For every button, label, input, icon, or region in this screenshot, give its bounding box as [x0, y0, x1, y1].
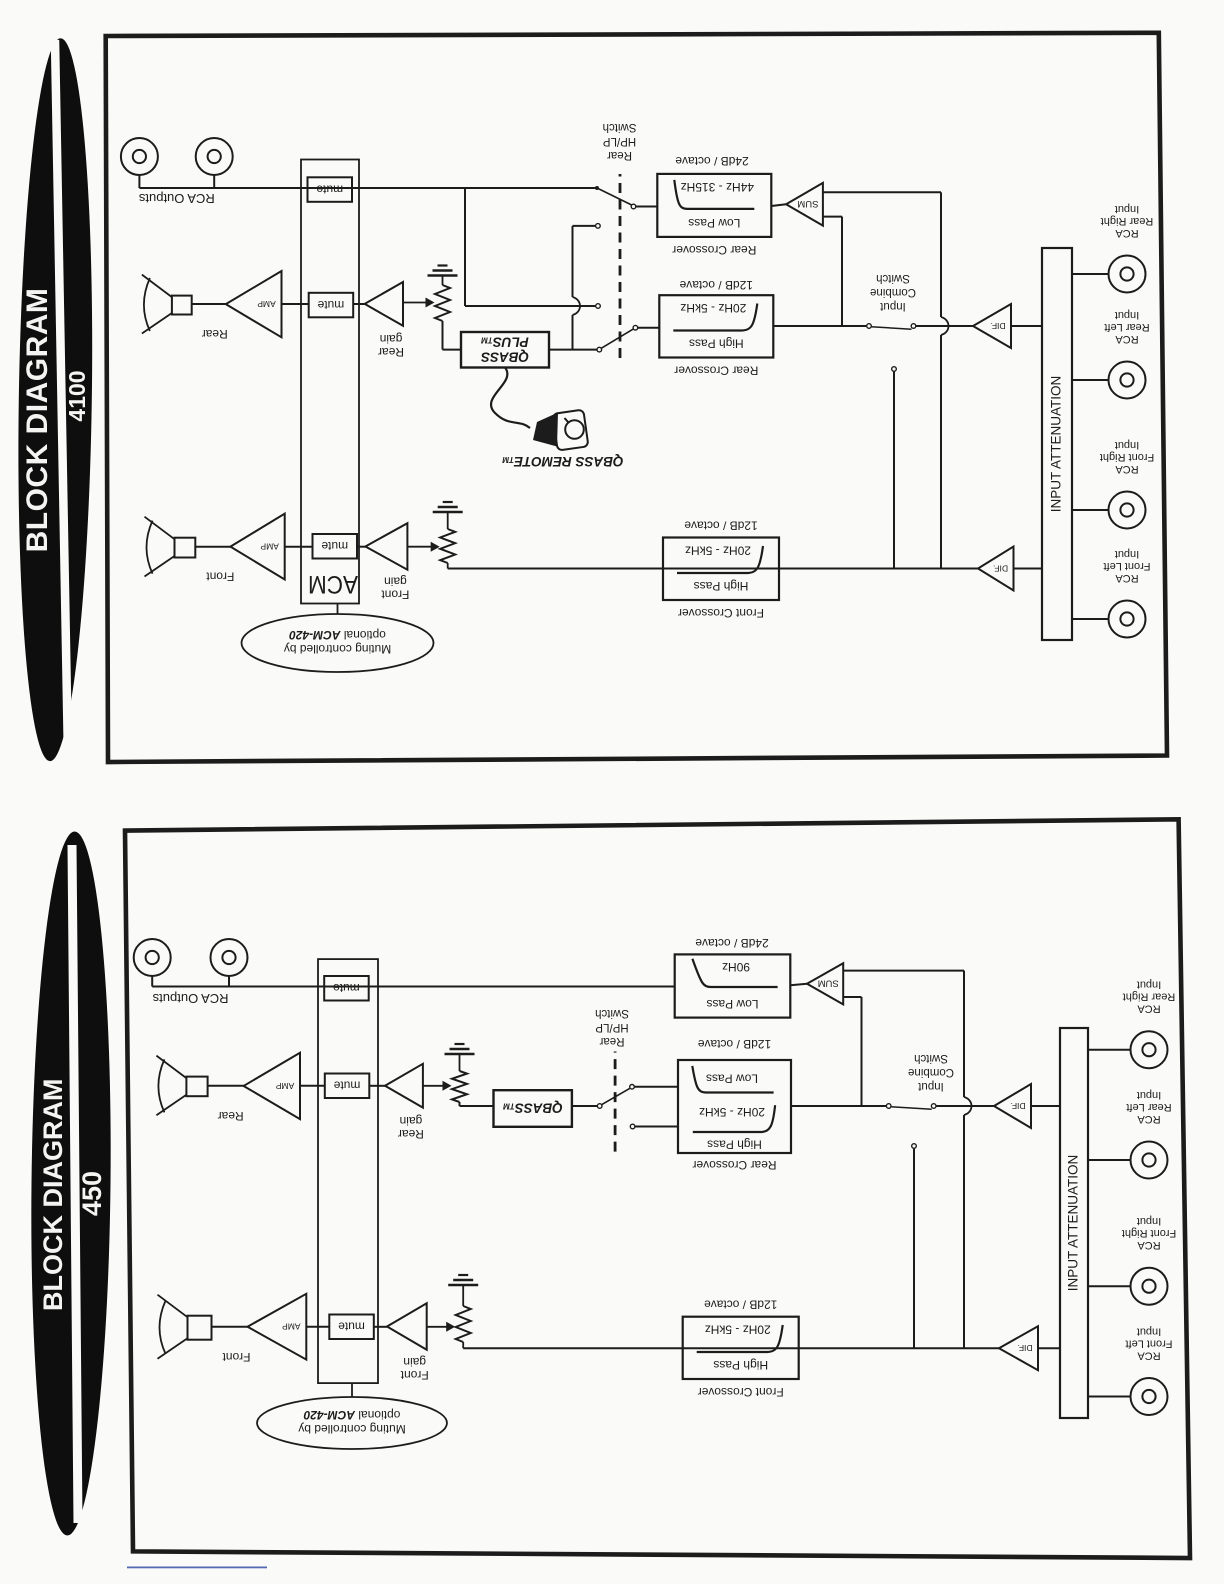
wire: jack Front Left to attenuator — [1088, 1396, 1131, 1398]
svg-text:Switch: Switch — [914, 1052, 948, 1064]
banner lens (bottom) — [28, 831, 114, 1536]
amplifier AMP — [244, 1053, 300, 1119]
svg-text:RCA: RCA — [1115, 572, 1139, 584]
svg-text:Front Right: Front Right — [1122, 1227, 1176, 1239]
wire: bracket from LP-switch contact to QBASS line — [573, 226, 596, 350]
ground — [445, 1044, 475, 1054]
label Front gain — [381, 575, 410, 602]
wire: attenuator to rear DIF — [1011, 325, 1042, 327]
gain pot Rear gain: resistor element — [435, 285, 450, 321]
QBASS REMOTE cable — [491, 368, 530, 429]
wire: front channel line — [448, 568, 978, 570]
gain pot Rear gain: ground stem — [442, 276, 444, 286]
wire: LP output stub — [635, 1086, 678, 1088]
wire: QBASS to rear pot — [460, 1102, 494, 1106]
svg-text:gain: gain — [380, 332, 403, 346]
svg-text:Rear Right: Rear Right — [1101, 215, 1154, 227]
mute block — [308, 177, 353, 202]
svg-text:Front Crossover: Front Crossover — [698, 1385, 784, 1399]
gain pot Front gain: wiper arrow — [407, 542, 439, 552]
svg-text:Input: Input — [1137, 1326, 1161, 1338]
ground — [433, 502, 463, 512]
svg-text:Rear: Rear — [378, 345, 404, 359]
svg-text:gain: gain — [384, 575, 407, 589]
svg-text:12dB / octave: 12dB / octave — [697, 1037, 771, 1051]
wire: output stem left jack — [213, 175, 215, 188]
wire: HP output stub — [635, 1126, 678, 1128]
QBASS REMOTE knob icon — [533, 410, 588, 451]
wire: rear channel line (DIF to crossover) — [773, 325, 973, 327]
block INPUT ATTENUATION — [1042, 248, 1072, 640]
label Rear gain — [378, 332, 404, 359]
svg-text:12dB / octave: 12dB / octave — [679, 278, 753, 292]
svg-text:Input: Input — [1137, 1215, 1161, 1227]
svg-text:Input: Input — [1137, 1089, 1161, 1101]
svg-text:BLOCK DIAGRAM: BLOCK DIAGRAM — [21, 288, 54, 553]
wire: SUM input from front (vertical) — [823, 192, 949, 568]
svg-text:SUM: SUM — [797, 198, 818, 209]
panel frame 4100 — [106, 33, 1167, 762]
svg-text:High Pass: High Pass — [713, 1358, 768, 1372]
note ellipse: Muting controlled by optional ACM-420 — [257, 1397, 447, 1449]
amplifier AMP — [248, 1294, 307, 1360]
filter block: Front Crossover High Pass — [663, 538, 779, 601]
gain pot Front gain: resistor element — [440, 529, 455, 563]
switch contact (QBASS side) — [597, 347, 602, 352]
wire: SUM to Low Pass — [790, 984, 807, 986]
junction: output select pivot — [595, 186, 599, 190]
label: RCA Rear Left Input — [1126, 1089, 1171, 1125]
mute block — [329, 1315, 374, 1340]
svg-text:Combine: Combine — [870, 286, 916, 298]
wire: ACM to note — [337, 604, 339, 615]
RCA jack: Front Right — [1109, 492, 1146, 529]
label Input Combine Switch — [870, 272, 916, 312]
svg-text:Input: Input — [879, 300, 905, 312]
svg-text:RCA Outputs: RCA Outputs — [138, 191, 214, 206]
gain pot Front gain: wiper arrow — [427, 1322, 456, 1332]
RCA jack: Rear Left — [1109, 362, 1146, 399]
RCA jack: Rear Right — [1109, 256, 1146, 293]
block QBASS PLUS — [461, 332, 549, 368]
wire: LP output stub — [636, 206, 657, 208]
svg-text:RCA: RCA — [1137, 1003, 1161, 1015]
label: RCA Front Right Input — [1122, 1215, 1176, 1251]
wire: attenuator to front DIF — [1014, 568, 1043, 570]
svg-text:High Pass: High Pass — [689, 337, 744, 351]
svg-text:Rear: Rear — [607, 149, 632, 161]
wire: jack Rear Left to attenuator — [1072, 379, 1109, 381]
wire: jack Rear Right to attenuator — [1088, 1049, 1131, 1051]
block QBASS — [494, 1090, 572, 1127]
banner stripe (bottom) — [72, 845, 78, 1523]
svg-text:DIF.: DIF. — [1017, 1343, 1032, 1353]
svg-text:mute: mute — [333, 1079, 360, 1093]
label: RCA Front Left Input — [1103, 548, 1150, 584]
svg-text:Switch: Switch — [876, 272, 910, 284]
input combine switch: contact — [931, 1104, 936, 1109]
svg-text:AMP: AMP — [260, 541, 279, 551]
wire: QBASS input line — [549, 349, 597, 351]
block ACM column — [301, 160, 359, 604]
summing amp SUM — [807, 963, 843, 1004]
svg-text:mute: mute — [316, 182, 343, 196]
svg-text:Input: Input — [1115, 439, 1139, 451]
amplifier AMP — [230, 514, 284, 580]
svg-text:mute: mute — [338, 1320, 365, 1334]
gain pot Rear gain: ground stem — [459, 1054, 461, 1071]
wire: pole to QBASS — [572, 1105, 597, 1107]
svg-text:20Hz - 5kHz: 20Hz - 5kHz — [685, 544, 751, 558]
svg-text:HP/LP: HP/LP — [603, 135, 637, 147]
wire: attenuator to front DIF — [1038, 1347, 1060, 1349]
banner lens (top) — [13, 38, 97, 762]
dashed divider: Rear HP/LP Switch — [614, 1052, 617, 1152]
input combine switch: lever — [871, 327, 912, 329]
svg-text:Low Pass: Low Pass — [706, 997, 758, 1011]
RCA jack: output L — [211, 939, 248, 976]
buffer amp (rear gain) — [365, 282, 403, 326]
speaker (Front) — [158, 1295, 212, 1359]
RCA jack: Front Left — [1131, 1378, 1168, 1415]
svg-text:Input: Input — [1115, 548, 1139, 560]
op-amp DIF. — [994, 1084, 1031, 1128]
wire: attenuator to rear DIF — [1031, 1105, 1060, 1107]
wire: jack Rear Left to attenuator — [1088, 1159, 1131, 1161]
wire: output line — [152, 986, 675, 988]
gain pot Front gain: resistor element — [456, 1306, 471, 1342]
block INPUT ATTENUATION — [1060, 1028, 1088, 1418]
RCA jack: Rear Left — [1131, 1142, 1168, 1179]
svg-text:DIF.: DIF. — [990, 321, 1005, 331]
svg-text:AMP: AMP — [282, 1322, 301, 1332]
wire: SUM to Low Pass — [771, 204, 786, 206]
switch contact (HP) — [630, 1124, 635, 1129]
wire: gain to mute (rear) — [369, 1085, 385, 1087]
wire: mute to AMP (front) — [306, 1326, 329, 1328]
wire: output stem right jack — [138, 175, 140, 188]
mute block — [324, 976, 369, 1001]
svg-text:mute: mute — [321, 539, 348, 553]
label: RCA Rear Right Input — [1123, 979, 1176, 1015]
svg-text:Rear Left: Rear Left — [1104, 321, 1149, 333]
svg-text:RCA: RCA — [1137, 1350, 1161, 1362]
label Rear gain — [398, 1114, 424, 1141]
gain pot Front gain: stem — [462, 1342, 464, 1348]
wire: rear HP output stub — [638, 327, 659, 329]
svg-text:Rear: Rear — [398, 1127, 424, 1141]
svg-text:Switch: Switch — [595, 1007, 629, 1019]
blue scan artifact line — [127, 1567, 267, 1569]
wire: ACM to note — [351, 1383, 353, 1397]
wire: front channel line — [463, 1347, 999, 1349]
svg-text:24dB / octave: 24dB / octave — [695, 936, 769, 950]
label Rear HP/LP Switch — [603, 121, 637, 161]
svg-text:20Hz - 5kHz: 20Hz - 5kHz — [699, 1105, 765, 1119]
svg-text:12dB / octave: 12dB / octave — [704, 1298, 778, 1312]
svg-text:DIF.: DIF. — [993, 563, 1008, 573]
svg-text:Input: Input — [1115, 203, 1139, 215]
gain pot Front gain: ground stem — [447, 512, 449, 529]
input combine switch: lever — [891, 1107, 932, 1109]
banner stripe (top) — [55, 40, 68, 757]
RCA jack: Front Right — [1131, 1268, 1168, 1305]
svg-text:RCA: RCA — [1137, 1239, 1161, 1251]
svg-text:Low Pass: Low Pass — [688, 216, 740, 230]
svg-text:mute: mute — [333, 981, 360, 995]
gain pot Front gain: ground stem — [462, 1285, 464, 1306]
wire: jack Front Right to attenuator — [1088, 1285, 1131, 1287]
svg-text:gain: gain — [403, 1355, 426, 1369]
RCA jack: output R — [134, 939, 171, 976]
speaker (Front) — [145, 517, 196, 577]
input combine switch: front branch wire — [893, 372, 895, 569]
note ellipse: Muting controlled by optional ACM-420 — [242, 614, 434, 672]
svg-text:Front: Front — [206, 570, 235, 584]
svg-text:INPUT ATTENUATION: INPUT ATTENUATION — [1066, 1155, 1081, 1292]
input combine switch: contact — [886, 1104, 891, 1109]
svg-text:20Hz - 5kHz: 20Hz - 5kHz — [680, 301, 746, 315]
ground — [448, 1275, 478, 1285]
svg-text:450: 450 — [77, 1171, 107, 1216]
label: RCA Rear Left Input — [1104, 309, 1149, 345]
wire: SUM input from front (vertical) — [843, 971, 971, 1349]
wire: output line — [139, 187, 597, 189]
filter block: Rear Crossover combined — [678, 1060, 791, 1153]
gain pot Rear gain: stem — [442, 320, 444, 322]
svg-text:Rear Crossover: Rear Crossover — [674, 364, 758, 378]
switch contact (pole) — [597, 1104, 602, 1109]
svg-text:Input: Input — [917, 1080, 943, 1092]
wire: SUM input from rear (vertical) — [823, 217, 842, 326]
label Rear HP/LP Switch — [595, 1007, 629, 1047]
svg-text:ACM: ACM — [308, 570, 358, 598]
svg-text:SUM: SUM — [818, 977, 839, 988]
wire: SUM input from rear (vertical) — [843, 997, 861, 1106]
svg-text:24dB / octave: 24dB / octave — [675, 154, 749, 168]
svg-text:High Pass: High Pass — [707, 1138, 762, 1152]
switch lever (rear HP) — [601, 329, 633, 348]
panel frame 450 — [125, 819, 1190, 1558]
wire: AMP to speaker (rear) — [208, 1085, 244, 1087]
buffer amp (front gain) — [387, 1303, 427, 1350]
svg-text:Front Crossover: Front Crossover — [678, 606, 764, 620]
svg-text:QBASS REMOTETM: QBASS REMOTETM — [502, 454, 623, 469]
speaker (Rear) — [142, 275, 192, 334]
svg-text:Input: Input — [1115, 309, 1139, 321]
filter block: Rear Crossover High Pass — [659, 295, 773, 357]
svg-text:optional ACM-420: optional ACM-420 — [289, 628, 386, 642]
op-amp DIF. — [978, 547, 1014, 591]
op-amp DIF. — [999, 1326, 1038, 1370]
speaker (Rear) — [156, 1056, 207, 1116]
svg-text:High Pass: High Pass — [694, 579, 749, 593]
svg-text:Rear: Rear — [599, 1035, 624, 1047]
svg-text:AMP: AMP — [257, 299, 276, 309]
RCA jack: Rear Right — [1131, 1031, 1168, 1068]
dashed divider: Rear HP/LP Switch — [619, 174, 622, 358]
wire: jack Rear Right to attenuator — [1072, 273, 1109, 275]
wire: QBASS to rear pot — [443, 321, 462, 350]
svg-text:RCA: RCA — [1137, 1113, 1161, 1125]
wire: AMP to speaker (rear) — [192, 303, 226, 305]
svg-text:RCA: RCA — [1115, 333, 1139, 345]
gain pot Rear gain: wiper arrow — [423, 1081, 452, 1091]
svg-text:Front Left: Front Left — [1125, 1338, 1172, 1350]
label Front gain — [400, 1355, 429, 1382]
switch contact (bracket) — [596, 224, 601, 229]
mute block — [325, 1074, 370, 1099]
svg-text:AMP: AMP — [275, 1081, 294, 1091]
svg-text:Front Right: Front Right — [1100, 451, 1154, 463]
svg-text:Muting controlled by: Muting controlled by — [284, 642, 391, 656]
svg-text:Rear Crossover: Rear Crossover — [672, 243, 756, 257]
svg-text:4100: 4100 — [64, 370, 90, 421]
switch lever (rear HP/LP) — [602, 1088, 630, 1104]
summing amp SUM — [786, 183, 823, 226]
filter block: Low Pass 90Hz — [675, 954, 791, 1017]
svg-text:QBASS: QBASS — [481, 350, 529, 365]
svg-text:Low Pass: Low Pass — [706, 1071, 758, 1085]
RCA jack: output R — [121, 138, 158, 175]
wire: mute to AMP (front) — [285, 546, 313, 548]
ground — [428, 266, 458, 276]
switch lever (output select) — [597, 188, 631, 205]
wire: output stem left jack — [228, 976, 230, 987]
input combine switch: contact — [911, 324, 916, 329]
wire: gain to mute (rear) — [353, 303, 365, 305]
svg-text:RCA: RCA — [1115, 227, 1139, 239]
wire: gain to mute (front) — [374, 1326, 387, 1328]
switch contact (HP output pivot) — [633, 325, 638, 330]
svg-text:Front Left: Front Left — [1103, 560, 1150, 572]
svg-text:44Hz - 315Hz: 44Hz - 315Hz — [681, 180, 754, 194]
svg-text:Rear Left: Rear Left — [1126, 1101, 1171, 1113]
svg-text:12dB / octave: 12dB / octave — [684, 519, 758, 533]
input combine switch: contact — [867, 324, 872, 329]
wire: full-range branch — [465, 188, 595, 306]
label: RCA Front Right Input — [1100, 439, 1154, 475]
op-amp DIF. — [973, 304, 1011, 348]
RCA jack: Front Left — [1109, 601, 1146, 638]
label: RCA Rear Right Input — [1101, 203, 1154, 239]
wire: output stem right jack — [151, 976, 153, 987]
svg-text:Input: Input — [1137, 979, 1161, 991]
svg-text:Combine: Combine — [908, 1066, 954, 1078]
mute block — [309, 293, 354, 318]
svg-text:gain: gain — [400, 1114, 423, 1128]
gain pot Rear gain: stem — [459, 1101, 461, 1103]
switch contact (LP output) — [631, 204, 636, 209]
svg-text:optional ACM-420: optional ACM-420 — [303, 1408, 400, 1422]
gain pot Rear gain: resistor element — [452, 1071, 467, 1102]
svg-text:Rear Right: Rear Right — [1123, 991, 1176, 1003]
buffer amp (front gain) — [365, 523, 407, 570]
wire: AMP to speaker (front) — [195, 546, 230, 548]
svg-text:HP/LP: HP/LP — [595, 1021, 629, 1033]
svg-text:BLOCK DIAGRAM: BLOCK DIAGRAM — [38, 1079, 68, 1311]
wire: gain to mute (front) — [357, 546, 365, 548]
switch contact (full-range side) — [596, 304, 601, 309]
wire: mute to AMP (rear) — [300, 1085, 325, 1087]
mute block — [313, 534, 358, 559]
wire: mute to AMP (rear) — [282, 303, 309, 305]
gain pot Front gain: stem — [447, 563, 449, 569]
svg-text:RCA: RCA — [1115, 463, 1139, 475]
svg-text:Muting controlled by: Muting controlled by — [298, 1422, 405, 1436]
svg-text:Rear Crossover: Rear Crossover — [692, 1158, 776, 1172]
buffer amp (rear gain) — [385, 1064, 423, 1108]
RCA jack: output L — [196, 138, 233, 175]
gain pot Rear gain: wiper arrow — [403, 298, 435, 308]
input combine switch: front branch wire — [913, 1149, 915, 1349]
switch contact (LP) — [630, 1085, 635, 1090]
svg-text:Front: Front — [400, 1368, 429, 1382]
svg-text:Rear: Rear — [202, 327, 228, 341]
svg-text:20Hz - 5kHz: 20Hz - 5kHz — [705, 1323, 771, 1337]
svg-text:Switch: Switch — [603, 121, 637, 133]
wire: rear channel line (DIF to crossover) — [791, 1105, 994, 1107]
block ACM column — [318, 959, 378, 1383]
wire: jack Front Right to attenuator — [1072, 509, 1109, 511]
label: RCA Front Left Input — [1125, 1326, 1172, 1362]
wire: AMP to speaker (front) — [212, 1326, 248, 1328]
amplifier AMP — [226, 271, 282, 337]
filter block: Front Crossover High Pass — [683, 1317, 799, 1379]
label Input Combine Switch — [908, 1052, 954, 1092]
svg-text:mute: mute — [317, 298, 344, 312]
filter block: Rear Crossover Low Pass — [657, 174, 771, 237]
wire: jack Front Left to attenuator — [1072, 618, 1109, 620]
svg-text:Rear: Rear — [218, 1109, 244, 1123]
svg-text:90Hz: 90Hz — [722, 960, 750, 974]
svg-text:RCA Outputs: RCA Outputs — [152, 991, 228, 1006]
svg-text:Front: Front — [381, 588, 410, 602]
svg-text:DIF.: DIF. — [1010, 1101, 1025, 1111]
svg-text:Front: Front — [222, 1350, 251, 1364]
svg-text:INPUT ATTENUATION: INPUT ATTENUATION — [1049, 376, 1064, 513]
